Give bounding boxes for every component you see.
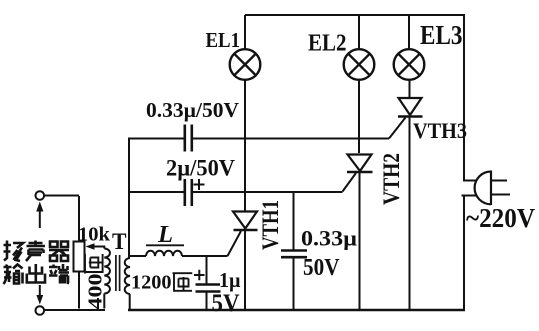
wire top terminal to pot [44,195,79,197]
wire VTH2 gate diagonal [343,173,357,192]
svg-text:1µ: 1µ [219,268,241,292]
wire VTH2 cathode down to bottom bus [359,172,361,310]
terminal J2 bottom speaker output [36,306,45,315]
wire VTH3 cathode down to bottom bus [409,117,411,311]
svg-text:T: T [112,229,127,254]
capacitor C3 0.33u/50V [281,251,307,258]
transformer T core [116,255,120,291]
svg-text:VTH3: VTH3 [413,118,467,143]
char YANG [4,241,24,262]
wire right rail upper (top bus to plug) [463,14,465,180]
svg-text:10k: 10k [78,224,111,246]
svg-text:~220V: ~220V [466,203,535,233]
svg-text:50V: 50V [303,255,340,281]
lamp EL3 [394,49,425,80]
node EL1 branch: wire top bus to lamp EL1 [244,15,246,49]
wire EL3 to VTH3 anode [409,80,411,98]
arrowheads [36,202,94,305]
wire EL3 stub from top bus [408,15,410,49]
thyristor VTH3 [398,98,423,117]
svg-text:2µ/50V: 2µ/50V [166,156,235,182]
potentiometer RP 10k body [74,242,85,272]
wire top bus [245,14,464,16]
wire EL2 to VTH2 anode [358,80,360,153]
svg-text:0.33µ/50V: 0.33µ/50V [146,98,239,122]
char SHU [4,265,23,285]
svg-text:1200: 1200 [131,272,172,294]
transformer T primary winding [104,249,110,294]
terminal J1 top speaker output [36,191,45,200]
wire 0.33u cap branch top lead [293,192,295,250]
thyristor VTH1 [233,212,258,231]
wire 1u cap top lead [206,256,208,284]
inductor L [146,251,182,256]
wire secondary bottom to bottom bus [129,294,131,310]
speaker output label row2 SHU CHU DUAN [4,264,70,284]
svg-text:5V: 5V [212,290,240,317]
svg-text:400: 400 [85,274,107,310]
svg-text:L: L [157,222,173,248]
svg-text:EL1: EL1 [206,28,241,52]
capacitor C2 2u/50V polarized [185,179,192,206]
wire VTH1 cathode down to bottom bus [244,230,246,310]
char SHENG [26,241,45,262]
plus mark of C2 [194,179,205,190]
svg-text:EL3: EL3 [420,20,463,50]
svg-text:EL2: EL2 [308,30,347,57]
wire gate bus middle (2u/50V cap to VTH2 gate) [128,191,184,193]
wire bottom speaker bus [44,309,105,311]
lamp EL1 [230,49,261,80]
transformer T secondary winding 1200 turns [125,258,130,294]
wire bottom bus [128,309,465,311]
wire left rail [128,139,130,259]
wire gate bus upper (0.33u/50V cap to VTH3 gate) [128,138,184,140]
char QI [49,242,69,262]
wire 1u cap bottom lead [206,292,208,310]
lamp EL2 [344,49,375,80]
char DUAN [49,264,69,284]
glyph ZA rotated for 400 turns [85,254,103,274]
wire 0.33u cap branch bottom lead [293,257,295,309]
wire primary bottom lead [103,294,105,309]
svg-text:VTH2: VTH2 [379,153,404,205]
wire pot bottom to speaker bottom wire [78,272,80,309]
wire right rail lower (plug to bottom bus) [463,196,465,310]
arrow down above bottom terminal [39,285,41,300]
plus mark of C4 [194,270,205,281]
plug XP ~220V [462,171,511,206]
wire primary top to potentiometer wiper (arrow) [90,247,104,249]
speaker output label (Chinese, drawn strokes) row1 YANG SHENG QI [4,241,70,262]
glyph ZA (turns) after 1200 [173,273,193,291]
wire left rail to L [129,255,146,257]
wire VTH3 gate diagonal [389,118,406,139]
char CHU [27,264,45,283]
arrow up below top terminal [39,210,41,228]
wire L to VTH1 gate junction [182,255,228,257]
wire EL1 to VTH1 anode [244,80,246,211]
capacitor C1 0.33u/50V [185,125,192,152]
wire pot top to terminal wire [78,196,80,242]
svg-text:0.33µ: 0.33µ [301,226,357,251]
wire EL2 stub from top bus [358,15,360,49]
svg-text:VTH1: VTH1 [258,200,283,250]
capacitor C4 1u/5V polarized [196,285,221,292]
thyristor VTH2 [347,155,373,173]
wire VTH1 gate diagonal [228,231,242,256]
potentiometer wiper arrowhead [86,243,95,250]
